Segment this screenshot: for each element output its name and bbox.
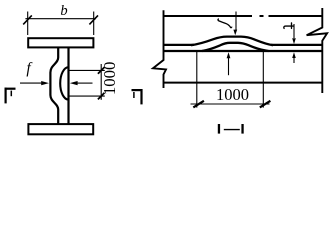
web left line with bulge	[50, 47, 58, 123]
plate bottom surface / ruler line	[164, 50, 323, 52]
top edge line solid right	[269, 15, 323, 17]
right break line	[307, 8, 328, 93]
section label I-I	[218, 124, 220, 134]
tick top	[98, 67, 105, 74]
dimension 1000 extension left	[196, 52, 198, 108]
arrow t down	[293, 24, 295, 38]
bulge upper arc	[191, 37, 273, 46]
dimension b tick right	[89, 15, 98, 24]
dimension b line	[25, 18, 96, 20]
left break line	[153, 10, 166, 88]
bottom flange	[28, 124, 93, 134]
dimension b extension line left	[27, 12, 29, 36]
label f rotated	[218, 19, 232, 28]
bottom edge line	[164, 82, 323, 84]
arrow right	[260, 101, 271, 108]
arrow f up from below	[227, 52, 231, 58]
svg-text:f: f	[26, 60, 33, 77]
section mark I right	[140, 89, 142, 104]
arrow t up	[292, 52, 296, 58]
top edge dash	[260, 15, 264, 17]
top edge line solid part	[164, 15, 253, 17]
bulge lower arc	[202, 43, 269, 51]
plate top surface right flat	[271, 44, 322, 46]
dimension 1000 extension top	[69, 69, 105, 71]
arrow f down	[235, 12, 237, 31]
dimension 1000 extension right	[262, 52, 264, 108]
dimension 1000 line	[100, 64, 102, 100]
dimension b tick left	[23, 15, 32, 24]
arrow left	[193, 101, 204, 108]
tick bottom	[98, 93, 105, 100]
dimension 1000 line	[191, 103, 270, 105]
dimension b extension line right	[93, 12, 95, 36]
bulge reference arc	[60, 67, 68, 99]
section mark I left	[4, 88, 6, 104]
label t rotated	[284, 23, 293, 29]
dimension 1000 extension bottom	[69, 95, 105, 97]
arrow f pointing right at bulge	[20, 82, 43, 84]
svg-text:b: b	[60, 3, 67, 19]
plate top surface left flat	[164, 44, 195, 46]
svg-text:1000: 1000	[100, 62, 119, 96]
top flange	[28, 38, 93, 47]
arrow pointing left at web	[70, 81, 78, 85]
svg-text:1000: 1000	[216, 85, 249, 104]
web right line	[67, 47, 69, 123]
